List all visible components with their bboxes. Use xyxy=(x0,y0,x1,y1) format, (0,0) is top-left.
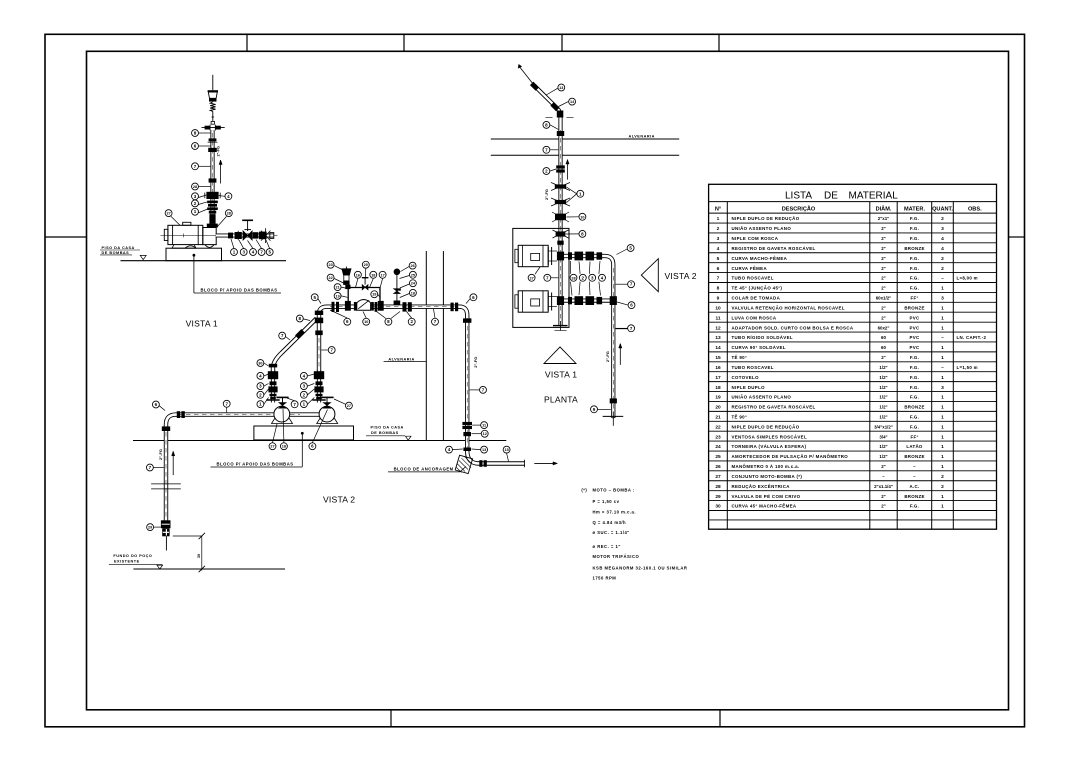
top margin fold tick 4 xyxy=(718,34,720,51)
callout balloon 9 xyxy=(591,406,598,413)
svg-text:1: 1 xyxy=(941,424,944,430)
svg-text:BRONZE: BRONZE xyxy=(904,494,924,499)
vista1 ventosa top cap xyxy=(208,90,218,92)
vista2 left riser 45 curve fitting 30 xyxy=(269,364,277,368)
svg-text:–: – xyxy=(913,474,916,479)
vista2 left riser valve stack xyxy=(268,371,278,379)
vista1 suction pipe piece 7 xyxy=(253,232,259,238)
svg-text:1/2": 1/2" xyxy=(879,454,887,459)
svg-text:1: 1 xyxy=(941,464,944,470)
svg-text:1: 1 xyxy=(941,395,944,401)
callout balloon 5 xyxy=(311,294,318,301)
vista2 ground floor line xyxy=(133,440,506,442)
svg-text:22: 22 xyxy=(328,276,332,280)
callout balloon 2 xyxy=(408,318,415,325)
callout balloon 15 xyxy=(503,446,510,453)
planta fan callout leaders xyxy=(570,261,572,274)
vista2 manometer 26 branch xyxy=(394,301,401,305)
callout balloon 21 xyxy=(334,284,341,291)
callout balloon 8 xyxy=(543,121,550,128)
vista2 bypass tee fittings xyxy=(345,301,351,311)
vista1 top flange pair 8 xyxy=(202,127,225,129)
callout balloon 13 xyxy=(558,84,565,91)
svg-text:18: 18 xyxy=(411,291,415,295)
svg-text:1/2": 1/2" xyxy=(879,415,887,420)
callout balloon 8 xyxy=(192,130,199,137)
svg-text:VALVULA RETENÇÃO HORIZONTAL RO: VALVULA RETENÇÃO HORIZONTAL ROSCAVEL xyxy=(732,305,845,310)
svg-text:10: 10 xyxy=(715,305,721,311)
vista2 foot valve 29 with strainer xyxy=(161,520,171,528)
callout balloon 4 xyxy=(225,193,232,200)
planta main pipe vertical with elbow to diagonal xyxy=(535,86,561,326)
callout balloon 3 xyxy=(589,274,596,281)
planta flow arrow up xyxy=(567,160,569,180)
svg-text:BRONZE: BRONZE xyxy=(904,246,924,251)
vista2 well bottom line xyxy=(133,568,285,570)
svg-text:F.G.: F.G. xyxy=(910,216,919,221)
vista1 union coupling xyxy=(208,148,217,152)
svg-text:F.G.: F.G. xyxy=(910,424,919,429)
callout balloon 10 xyxy=(579,213,586,220)
svg-text:F.G.: F.G. xyxy=(910,256,919,261)
svg-text:PVC: PVC xyxy=(910,335,920,340)
planta header flow arrow up xyxy=(619,344,621,365)
svg-text:29: 29 xyxy=(148,526,152,530)
callout balloon 1 xyxy=(192,208,199,215)
svg-text:13: 13 xyxy=(482,448,486,452)
vista2 manifold callouts top group xyxy=(334,266,344,271)
svg-text:BRONZE: BRONZE xyxy=(904,405,924,410)
svg-text:1/2": 1/2" xyxy=(879,375,887,380)
planta discharge header pipe xyxy=(564,256,613,416)
svg-text:28: 28 xyxy=(227,212,231,216)
planta callout 7 header xyxy=(616,283,628,285)
svg-text:DE BOMBAS: DE BOMBAS xyxy=(102,251,130,255)
planta union 2 xyxy=(556,165,565,168)
planta wall lines ALVENARIA xyxy=(491,138,679,140)
planta check valve 10 xyxy=(555,214,566,221)
svg-text:3: 3 xyxy=(941,296,944,302)
vista1 floor ground line xyxy=(121,260,287,262)
vista2 pump 1 discharge valve with tee handle xyxy=(276,396,288,398)
svg-text:PISO DA CASA: PISO DA CASA xyxy=(102,246,135,250)
svg-text:OBS.: OBS. xyxy=(968,206,982,212)
callout balloon 6 xyxy=(470,294,477,301)
svg-text:3/4": 3/4" xyxy=(879,434,887,439)
svg-text:1: 1 xyxy=(941,305,944,311)
svg-text:1/2": 1/2" xyxy=(879,395,887,400)
vista1 ventosa body funnel xyxy=(208,92,217,98)
vista2 foot valve callout 29 xyxy=(154,526,161,528)
svg-text:FUNDO DO POÇO: FUNDO DO POÇO xyxy=(113,554,152,558)
planta discharge branch pump2 xyxy=(564,299,611,303)
svg-text:2"-FG: 2"-FG xyxy=(544,189,549,200)
callout balloon 2 xyxy=(579,274,586,281)
callout balloon 1 xyxy=(257,401,264,408)
vista2 pump 2 volute xyxy=(319,406,335,422)
planta vista2 direction triangle xyxy=(641,259,658,292)
svg-text:2": 2" xyxy=(881,315,886,320)
vista2 left riser pipe xyxy=(271,370,275,403)
svg-text:F.G.: F.G. xyxy=(910,226,919,231)
vista1 suction nipple 1 xyxy=(228,233,233,239)
vista1 callout leaders xyxy=(199,132,211,134)
svg-text:3: 3 xyxy=(941,385,944,391)
svg-text:13: 13 xyxy=(715,335,721,341)
top margin fold tick 3 xyxy=(561,34,563,51)
vista1 ventosa stem line xyxy=(212,75,214,90)
vista2 te 45 junction 8 xyxy=(315,318,323,324)
callout balloon 23 xyxy=(327,261,334,268)
planta header end cross xyxy=(603,415,624,417)
svg-text:15: 15 xyxy=(715,355,721,361)
svg-text:L=1,50 m: L=1,50 m xyxy=(957,365,978,370)
callout balloon 5 xyxy=(627,245,634,252)
svg-text:LN. CAPIT.-2: LN. CAPIT.-2 xyxy=(957,335,987,340)
callout balloon 28 xyxy=(570,274,577,281)
svg-text:26: 26 xyxy=(410,264,414,268)
svg-text:TORNEIRA (VÁLVULA ESFERA): TORNEIRA (VÁLVULA ESFERA) xyxy=(732,444,807,449)
planta callout 27 and 7 left xyxy=(535,267,540,274)
svg-text:24: 24 xyxy=(715,444,721,450)
vista2 diagonal pipe callouts xyxy=(286,337,290,340)
planta motor pump 2 body xyxy=(518,291,548,312)
svg-text:2": 2" xyxy=(881,355,886,360)
svg-text:NIPLE DUPLO DE REDUÇÃO: NIPLE DUPLO DE REDUÇÃO xyxy=(732,216,800,221)
vista2 right riser callout leaders xyxy=(308,374,315,376)
svg-text:2"-FG: 2"-FG xyxy=(605,351,610,362)
svg-text:14: 14 xyxy=(715,345,721,351)
svg-text:A.C.: A.C. xyxy=(910,484,920,489)
svg-text:29: 29 xyxy=(715,494,721,500)
vista2 right riser valve stack xyxy=(314,371,324,379)
svg-text:ALVENARIA: ALVENARIA xyxy=(629,134,655,138)
vista1 valve stem rod xyxy=(212,111,214,121)
svg-text:BRONZE: BRONZE xyxy=(904,305,924,310)
bottom margin fold tick 1 xyxy=(390,710,392,727)
svg-text:2": 2" xyxy=(881,305,886,310)
callout balloon 4 xyxy=(300,372,307,379)
callout balloon 16 xyxy=(354,271,361,278)
callout balloon 7 xyxy=(291,401,298,408)
callout balloon 7 xyxy=(480,386,487,393)
callout balloon 3 xyxy=(300,383,307,390)
callout balloon 27 xyxy=(528,274,535,281)
vista1 gate valve 4 with handwheel xyxy=(243,231,252,240)
svg-text:CURVA MACHO-FÊMEA: CURVA MACHO-FÊMEA xyxy=(732,256,788,261)
callout balloon 7 xyxy=(279,332,286,339)
vista1 pipe coupling band xyxy=(209,178,217,182)
callout balloon 4 xyxy=(446,446,453,453)
svg-text:TÊ 90°: TÊ 90° xyxy=(732,415,748,420)
svg-text:1: 1 xyxy=(941,405,944,411)
svg-text:1/2": 1/2" xyxy=(879,444,887,449)
svg-text:28: 28 xyxy=(715,484,721,490)
callout balloon 3 xyxy=(257,383,264,390)
vista2 coupling 13 below ground xyxy=(463,448,471,452)
svg-text:BRONZE: BRONZE xyxy=(904,454,924,459)
callout balloon 4 xyxy=(599,274,606,281)
svg-text:BLOCO DE ANCORAGEM: BLOCO DE ANCORAGEM xyxy=(394,466,454,471)
vista2 manifold union 2 xyxy=(403,302,407,311)
callout balloon 22 xyxy=(327,274,334,281)
vista1 motor shaft centerline xyxy=(161,234,278,236)
svg-text:F.G.: F.G. xyxy=(910,236,919,241)
callout balloon 20 xyxy=(362,261,369,268)
svg-text:27: 27 xyxy=(529,276,533,280)
planta discharge fittings row 1 xyxy=(568,252,572,259)
svg-text:60x1/2": 60x1/2" xyxy=(876,296,892,301)
svg-text:60x2": 60x2" xyxy=(878,325,890,330)
callout balloon 24 xyxy=(409,280,416,287)
svg-text:15: 15 xyxy=(504,448,508,452)
planta callout 6 header tee xyxy=(617,302,628,305)
svg-text:25: 25 xyxy=(715,454,721,460)
svg-text:7: 7 xyxy=(717,276,720,282)
planta vista1 direction triangle xyxy=(544,347,576,364)
vista2 right riser pipe xyxy=(317,370,321,403)
callout balloon 27 xyxy=(345,402,352,409)
svg-text:DESCRIÇÃO: DESCRIÇÃO xyxy=(782,205,816,212)
callout balloon 18 xyxy=(370,271,377,278)
vista2 bypass loop small pipe xyxy=(348,288,380,305)
svg-text:1: 1 xyxy=(941,286,944,292)
svg-text:LATÃO: LATÃO xyxy=(906,444,923,449)
svg-text:Q = 4.84 m3/h: Q = 4.84 m3/h xyxy=(593,520,627,525)
svg-text:TÊ 90°: TÊ 90° xyxy=(732,355,748,360)
callout balloon 11 xyxy=(481,422,488,429)
vista1 callout 28 leader to casing xyxy=(218,216,227,226)
callout balloon 6 xyxy=(344,318,351,325)
callout balloon 2 xyxy=(192,200,199,207)
vista2 manifold flange pair right of check valve xyxy=(375,302,378,312)
callout balloon 19 xyxy=(334,292,341,299)
svg-text:F.G.: F.G. xyxy=(910,385,919,390)
planta coupling at wall xyxy=(557,131,564,136)
planta callout 5 at header elbow xyxy=(617,249,628,255)
callout balloon 25 xyxy=(409,271,416,278)
callout balloon 7 xyxy=(628,325,635,332)
svg-text:11: 11 xyxy=(715,315,720,321)
svg-text:2": 2" xyxy=(881,286,886,291)
svg-text:PVC: PVC xyxy=(910,325,920,330)
svg-text:CURVA FÊMEA: CURVA FÊMEA xyxy=(732,266,768,271)
vista1 callout 27 leader to motor xyxy=(171,216,180,225)
vista2 manifold flange pair left xyxy=(332,302,335,312)
svg-text:25: 25 xyxy=(411,273,415,277)
svg-text:5: 5 xyxy=(717,256,720,262)
svg-text:20: 20 xyxy=(715,405,721,411)
svg-text:2: 2 xyxy=(717,226,720,232)
svg-text:1: 1 xyxy=(941,434,944,440)
svg-text:1: 1 xyxy=(941,504,944,510)
vista1 union coupling 6 xyxy=(209,138,217,141)
svg-text:30: 30 xyxy=(258,362,262,366)
svg-text:12: 12 xyxy=(715,325,721,331)
svg-text:1: 1 xyxy=(941,375,944,381)
callout balloon 3 xyxy=(240,249,247,256)
vista2 block leader dot and label xyxy=(301,432,304,435)
callout balloon 7 xyxy=(543,146,550,153)
top margin fold tick 2 xyxy=(403,34,405,51)
svg-text:DE BOMBAS: DE BOMBAS xyxy=(371,431,399,435)
vista2 discharge manifold pipe xyxy=(319,307,525,464)
svg-text:1/2": 1/2" xyxy=(879,365,887,370)
svg-text:F.G.: F.G. xyxy=(910,375,919,380)
svg-text:2: 2 xyxy=(941,484,944,490)
vista2 suction pipe with elbow to well xyxy=(166,415,331,523)
svg-text:PVC: PVC xyxy=(910,345,920,350)
svg-text:Hm = 37.10 m.c.a.: Hm = 37.10 m.c.a. xyxy=(593,509,637,514)
svg-text:19: 19 xyxy=(715,395,721,401)
planta motor pump 1 body xyxy=(518,245,548,266)
svg-text:–: – xyxy=(913,464,916,469)
callout balloon 8 xyxy=(385,318,392,325)
callout balloon 8 xyxy=(579,230,586,237)
svg-text:REDUÇÃO EXCÊNTRICA: REDUÇÃO EXCÊNTRICA xyxy=(732,484,791,489)
vista2 pump 2 discharge valve with tee handle xyxy=(321,396,333,398)
vista2 check valve 10 on manifold xyxy=(354,302,357,311)
svg-text:COLAR DE TOMADA: COLAR DE TOMADA xyxy=(732,296,781,301)
svg-text:2"x1": 2"x1" xyxy=(878,216,890,221)
svg-text:1: 1 xyxy=(941,315,944,321)
callout balloon 6 xyxy=(192,143,199,150)
vista2 right downpipe coupling xyxy=(463,318,471,322)
planta header tee at pump2 xyxy=(610,296,617,305)
svg-text:NIPLE COM ROSCA: NIPLE COM ROSCA xyxy=(732,236,779,241)
svg-text:L=8,00 m: L=8,00 m xyxy=(957,276,978,281)
vista2 suction union on horizontal pipe xyxy=(177,411,180,418)
svg-text:2": 2" xyxy=(881,236,886,241)
svg-text:6: 6 xyxy=(717,266,720,272)
svg-text:9: 9 xyxy=(717,296,720,302)
vista2 pump foundation block xyxy=(254,426,354,440)
svg-text:FF°: FF° xyxy=(910,434,918,439)
svg-text:AMORTECEDOR DE PULSAÇÃO P/ MAN: AMORTECEDOR DE PULSAÇÃO P/ MANÔMETRO xyxy=(732,454,849,459)
vista1 pump casing xyxy=(203,228,216,245)
svg-text:60: 60 xyxy=(881,335,886,340)
callout balloon 13 xyxy=(481,446,488,453)
svg-text:17: 17 xyxy=(715,375,721,381)
planta diagonal coupling band xyxy=(530,82,539,91)
callout balloon 7 xyxy=(223,400,230,407)
svg-text:2": 2" xyxy=(881,226,886,231)
svg-text:11: 11 xyxy=(482,424,486,428)
callout balloon 12 xyxy=(481,430,488,437)
vista2 outlet coupling 15 xyxy=(479,460,482,467)
svg-text:ø SUC. = 1.1/4": ø SUC. = 1.1/4" xyxy=(593,530,630,535)
callout balloon 18 xyxy=(280,443,287,450)
svg-text:ADAPTADOR SOLD. CURTO COM BOLS: ADAPTADOR SOLD. CURTO COM BOLSA E ROSCA xyxy=(732,325,854,330)
svg-text:2"-FG: 2"-FG xyxy=(158,449,163,460)
svg-text:CURVA 90° SOLDÁVEL: CURVA 90° SOLDÁVEL xyxy=(732,345,786,350)
svg-text:1: 1 xyxy=(941,454,944,460)
svg-text:BLOCO P/ APOIO DAS BOMBAS: BLOCO P/ APOIO DAS BOMBAS xyxy=(201,287,278,292)
svg-text:F.G.: F.G. xyxy=(910,415,919,420)
svg-text:1750 RPM: 1750 RPM xyxy=(593,575,617,580)
svg-text:2": 2" xyxy=(881,246,886,251)
vista1 gate valve 4 xyxy=(206,192,218,199)
svg-text:MOTO – BOMBA :: MOTO – BOMBA : xyxy=(593,488,635,493)
planta callout 7 on wall pipe xyxy=(550,149,558,151)
svg-text:2": 2" xyxy=(881,504,886,509)
vista1 suction union 3 xyxy=(235,232,242,239)
svg-text:UNIÃO ASSENTO PLANO: UNIÃO ASSENTO PLANO xyxy=(732,395,792,400)
svg-text:BLOCO P/ APOIO DAS BOMBAS: BLOCO P/ APOIO DAS BOMBAS xyxy=(217,461,294,466)
svg-text:PLANTA: PLANTA xyxy=(544,394,578,404)
svg-text:2": 2" xyxy=(881,266,886,271)
material list table: row grid lines xyxy=(709,222,997,224)
svg-text:TUBO ROSCAVEL: TUBO ROSCAVEL xyxy=(732,276,774,281)
vista2 manifold coupling at wall xyxy=(451,303,454,312)
svg-text:2"x1.1/4": 2"x1.1/4" xyxy=(874,484,893,489)
planta callout 7 downpipe xyxy=(616,328,628,330)
svg-text:19: 19 xyxy=(335,294,339,298)
sheet inner border frame xyxy=(87,51,1009,710)
svg-text:1/2": 1/2" xyxy=(879,405,887,410)
svg-text:FF°: FF° xyxy=(910,296,918,301)
callout balloon 19 xyxy=(371,291,378,298)
callout balloon 14 xyxy=(569,98,576,105)
svg-text:F.G.: F.G. xyxy=(910,395,919,400)
planta callout 7 header lower xyxy=(616,327,628,329)
svg-text:(*): (*) xyxy=(581,488,587,493)
vista2 under-block callouts xyxy=(273,424,278,443)
material list table: header row xyxy=(709,212,997,214)
svg-text:23: 23 xyxy=(715,434,721,440)
callout balloon 27 xyxy=(269,443,276,450)
vista1 spring coil xyxy=(210,102,215,112)
callout balloon 29 xyxy=(147,524,154,531)
svg-text:10: 10 xyxy=(364,320,368,324)
material list table: outer box xyxy=(709,184,997,529)
svg-text:2: 2 xyxy=(941,256,944,262)
vista2 well flow arrow xyxy=(172,451,174,475)
callout balloon 26 xyxy=(409,262,416,269)
svg-text:F.G.: F.G. xyxy=(910,286,919,291)
top margin fold tick 1 xyxy=(246,34,248,51)
svg-text:REGISTRO DE GAVETA ROSCÁVEL: REGISTRO DE GAVETA ROSCÁVEL xyxy=(732,246,816,251)
callout balloon 4 xyxy=(257,372,264,379)
svg-text:27: 27 xyxy=(715,474,721,480)
planta elbow centerline ticks xyxy=(546,116,553,118)
svg-text:17: 17 xyxy=(380,273,384,277)
svg-text:2: 2 xyxy=(941,474,944,480)
planta fitting 8 below xyxy=(556,231,566,236)
vista1 flow arrow up xyxy=(220,160,222,184)
callout balloon 18 xyxy=(409,289,416,296)
svg-text:TUBO RÍGIDO SOLDÁVEL: TUBO RÍGIDO SOLDÁVEL xyxy=(732,335,793,340)
callout balloon 28 xyxy=(192,183,199,190)
svg-text:18: 18 xyxy=(371,273,375,277)
svg-text:60: 60 xyxy=(881,345,886,350)
svg-text:4: 4 xyxy=(941,236,944,242)
svg-text:26: 26 xyxy=(715,464,721,470)
vista1 pump feet xyxy=(172,245,196,249)
callout balloon 7 xyxy=(432,318,439,325)
planta pump foundation block outline xyxy=(513,228,569,327)
svg-text:16: 16 xyxy=(356,273,360,277)
svg-text:REGISTRO DE GAVETA ROSCÁVEL: REGISTRO DE GAVETA ROSCÁVEL xyxy=(732,405,816,410)
svg-text:EXISTENTE: EXISTENTE xyxy=(114,559,140,563)
callout balloon 1 xyxy=(300,401,307,408)
svg-text:27: 27 xyxy=(270,445,274,449)
svg-text:27: 27 xyxy=(347,404,351,408)
callout balloon 7 xyxy=(544,274,551,281)
vista2 pump 1 volute xyxy=(274,406,290,422)
svg-text:23: 23 xyxy=(328,263,332,267)
svg-text:2"-FG: 2"-FG xyxy=(216,146,220,156)
